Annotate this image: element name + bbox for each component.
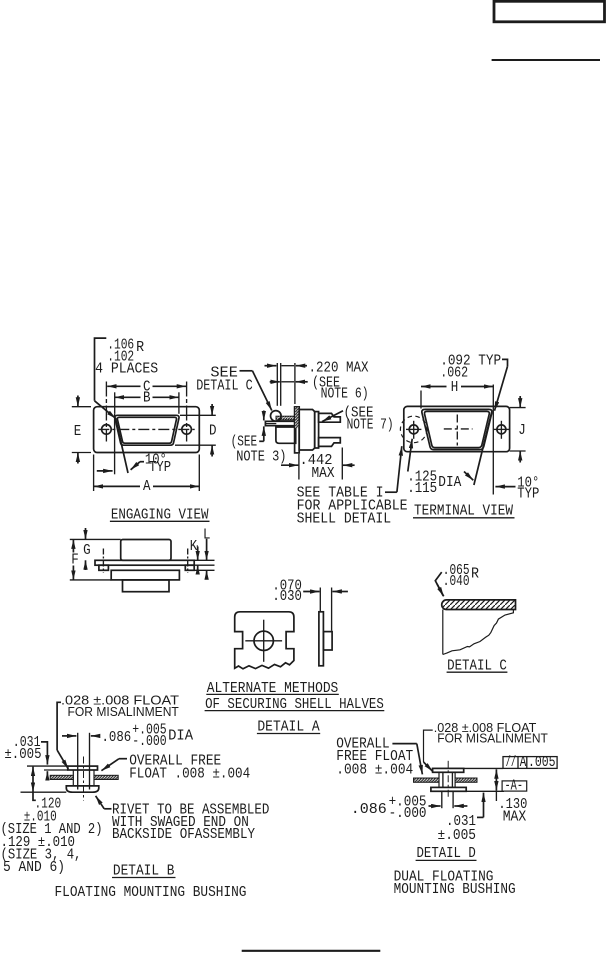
svg-text:TYP: TYP [149,460,171,476]
svg-text:FOR MISALINMENT: FOR MISALINMENT [437,732,548,746]
svg-text:J: J [518,423,526,439]
svg-text:MAX: MAX [503,810,527,826]
svg-text:4 PLACES: 4 PLACES [95,362,158,378]
svg-text:K: K [190,539,198,555]
svg-text:L: L [203,527,211,543]
svg-text:DIA: DIA [438,475,461,491]
svg-text:DETAIL D: DETAIL D [417,846,476,862]
svg-text:.030: .030 [272,589,302,605]
svg-text:.040: .040 [443,574,470,590]
svg-text:E: E [74,424,82,440]
svg-text:MOUNTING BUSHING: MOUNTING BUSHING [394,882,516,898]
svg-text:R: R [471,567,479,583]
svg-text:A: A [520,755,527,771]
svg-text:D: D [209,423,217,439]
svg-text:A: A [143,479,151,495]
svg-text://: // [506,755,516,771]
svg-text:±.005: ±.005 [4,747,41,763]
svg-text:F: F [71,552,79,568]
svg-text:.220 MAX: .220 MAX [309,360,369,376]
svg-text:.086: .086 [102,730,132,746]
svg-text:SHELL DETAIL: SHELL DETAIL [297,512,392,528]
svg-text:-A-: -A- [505,779,524,795]
svg-text:G: G [83,543,91,559]
svg-text:H: H [451,380,459,396]
svg-text:.005: .005 [528,755,556,771]
svg-text:DIA: DIA [168,729,193,745]
svg-text:TYP: TYP [517,487,539,503]
svg-text:R: R [136,340,144,356]
svg-text:.086: .086 [351,802,387,818]
svg-text:MAX: MAX [312,466,335,482]
svg-text:-.000: -.000 [132,734,166,750]
svg-text:NOTE 7): NOTE 7) [347,418,394,434]
svg-text:.115: .115 [407,481,437,497]
svg-text:5 AND 6): 5 AND 6) [3,860,65,876]
svg-text:.008 ±.004: .008 ±.004 [336,763,413,779]
svg-text:NOTE 6): NOTE 6) [321,387,369,403]
svg-text:B: B [143,390,151,406]
svg-text:FLOATING MOUNTING BUSHING: FLOATING MOUNTING BUSHING [55,885,247,901]
svg-text:BACKSIDE OFASSEMBLY: BACKSIDE OFASSEMBLY [112,827,255,843]
svg-text:DETAIL C: DETAIL C [196,378,253,394]
svg-text:FLOAT .008 ±.004: FLOAT .008 ±.004 [129,767,250,783]
svg-text:-.000: -.000 [389,806,427,822]
svg-text:NOTE 3): NOTE 3) [236,450,286,466]
svg-text:FOR MISALINMENT: FOR MISALINMENT [68,705,180,719]
svg-text:±.005: ±.005 [438,828,477,844]
svg-text:(SEE: (SEE [231,434,258,450]
